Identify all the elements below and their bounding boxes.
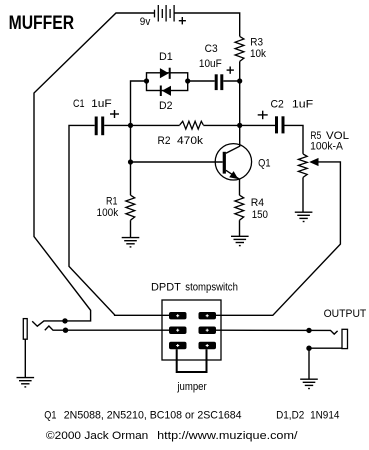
svg-text:©2000 Jack Orman: ©2000 Jack Orman <box>46 430 148 442</box>
svg-text:10uF: 10uF <box>199 58 222 70</box>
svg-text:150: 150 <box>252 209 268 221</box>
svg-text:D2: D2 <box>159 100 173 112</box>
svg-text:1uF: 1uF <box>91 98 112 110</box>
svg-text:stompswitch: stompswitch <box>185 282 238 294</box>
svg-text:OUTPUT: OUTPUT <box>324 308 367 320</box>
svg-text:2N5088, 2N5210, BC108 or 2SC16: 2N5088, 2N5210, BC108 or 2SC1684 <box>64 410 242 422</box>
svg-text:R3: R3 <box>250 37 263 49</box>
svg-text:MUFFER: MUFFER <box>9 13 75 34</box>
svg-text:D1,D2: D1,D2 <box>276 410 304 422</box>
svg-text:R1: R1 <box>106 196 118 208</box>
svg-text:D1: D1 <box>159 51 173 63</box>
svg-text:100k: 100k <box>97 207 119 219</box>
svg-text:C2: C2 <box>271 98 284 110</box>
svg-text:1uF: 1uF <box>292 98 314 110</box>
svg-text:R2: R2 <box>158 135 171 147</box>
svg-text:Q1: Q1 <box>44 410 56 422</box>
svg-text:C3: C3 <box>205 43 218 55</box>
svg-text:Q1: Q1 <box>258 157 270 169</box>
svg-text:R4: R4 <box>251 197 264 209</box>
svg-text:http://www.muzique.com/: http://www.muzique.com/ <box>157 430 298 442</box>
svg-text:jumper: jumper <box>177 381 207 393</box>
svg-text:10k: 10k <box>250 48 266 60</box>
svg-text:470k: 470k <box>177 135 204 147</box>
svg-text:C1: C1 <box>73 98 85 110</box>
svg-text:DPDT: DPDT <box>151 282 181 294</box>
svg-text:9v: 9v <box>140 16 151 28</box>
svg-text:100k-A: 100k-A <box>310 141 343 153</box>
svg-text:1N914: 1N914 <box>310 410 339 422</box>
